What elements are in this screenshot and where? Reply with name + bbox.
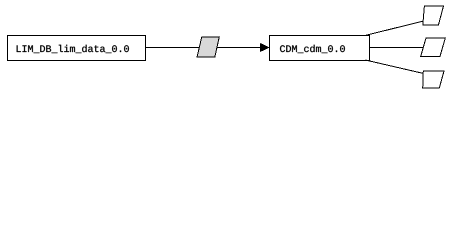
parallelogram bottom bbox=[423, 71, 444, 88]
block CDM_cdm_0.0 bbox=[270, 36, 370, 61]
parallelogram middle bbox=[421, 38, 446, 56]
parallelogram top bbox=[423, 6, 444, 25]
wire bbox=[366, 21, 423, 35]
block LIM_DB_lim_data_0.0 bbox=[8, 36, 146, 61]
wire bbox=[365, 60, 423, 73]
arrowhead bbox=[260, 43, 270, 52]
wire bbox=[370, 47, 424, 49]
gray parallelogram bbox=[197, 37, 219, 57]
wire bbox=[145, 47, 270, 49]
